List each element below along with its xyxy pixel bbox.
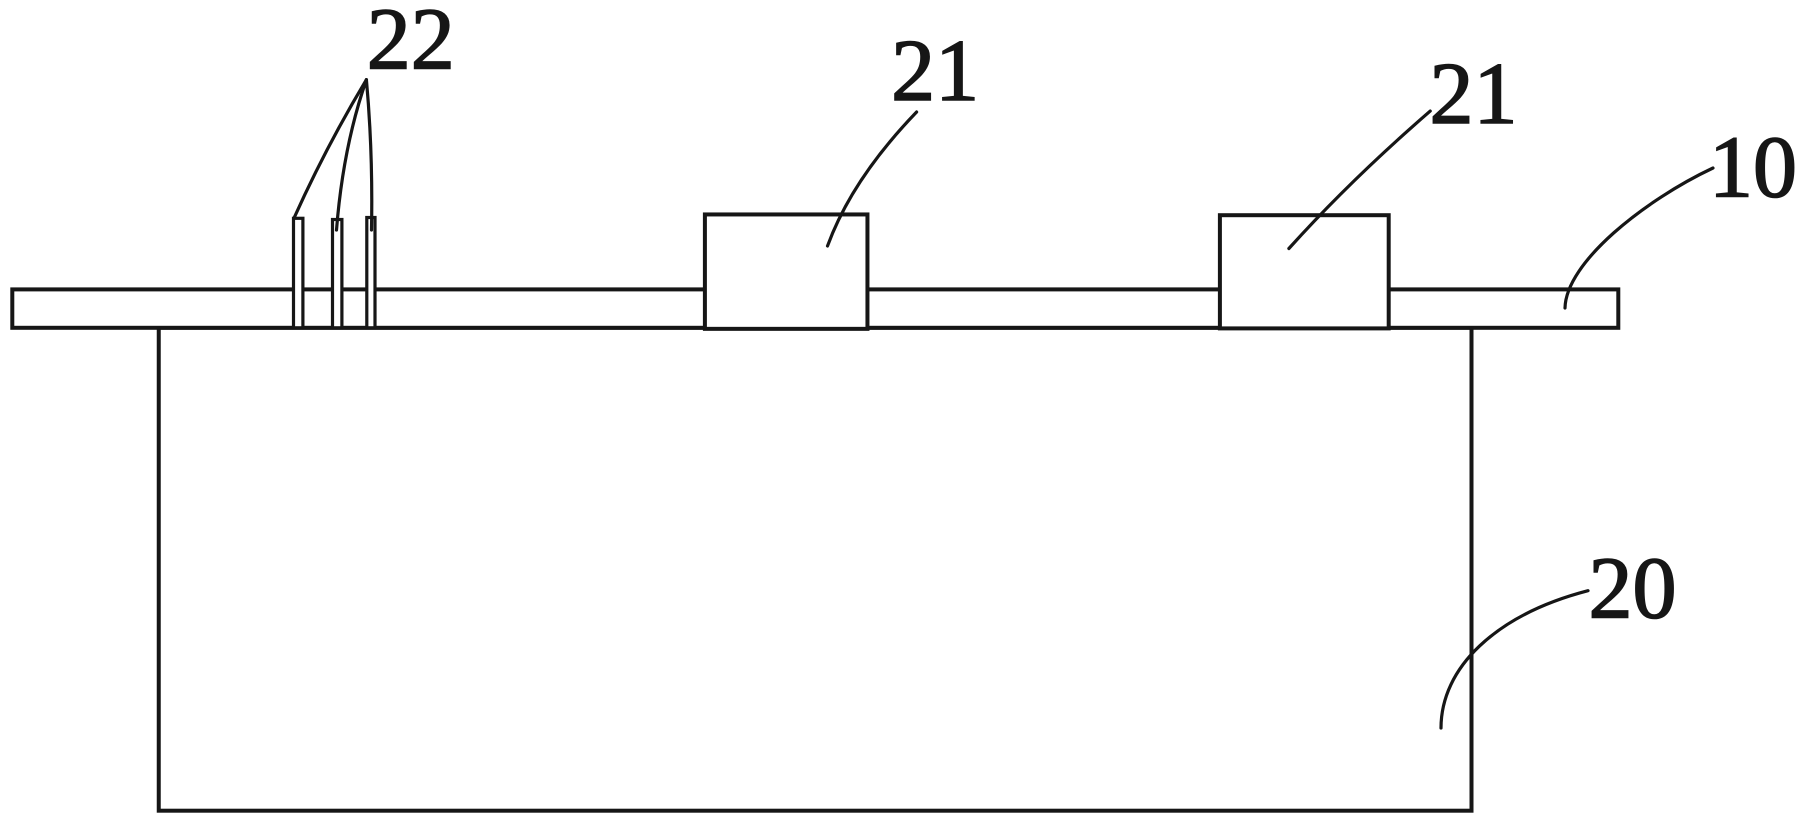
svg-text:21: 21 bbox=[891, 23, 979, 120]
svg-text:21: 21 bbox=[1430, 46, 1518, 143]
svg-text:20: 20 bbox=[1589, 540, 1677, 637]
svg-text:22: 22 bbox=[367, 0, 455, 89]
svg-text:10: 10 bbox=[1709, 119, 1797, 216]
